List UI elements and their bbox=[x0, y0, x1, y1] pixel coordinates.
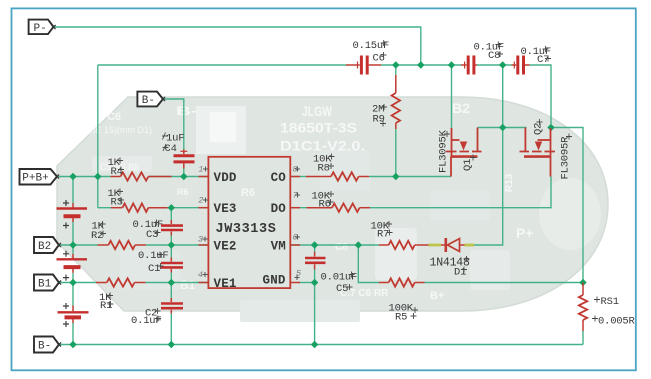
battery cell BT3 bbox=[58, 312, 89, 317]
wire VE3 row bbox=[98, 207, 111, 209]
svg-text:0.1uF: 0.1uF bbox=[131, 315, 162, 327]
port P+B+ bbox=[20, 169, 58, 185]
wire lead R4 bbox=[111, 176, 121, 178]
wire B2 / VE2 row bbox=[59, 244, 98, 246]
wire DO / R6 row bbox=[290, 207, 306, 209]
resistor R2 bbox=[108, 241, 135, 249]
svg-text:R5: R5 bbox=[395, 312, 407, 324]
svg-text:P+: P+ bbox=[516, 225, 534, 241]
wire lead R6 bbox=[307, 207, 333, 209]
red component leads bbox=[73, 65, 583, 331]
capacitor C5 bbox=[305, 258, 326, 263]
wire lead C6 bbox=[346, 64, 360, 66]
resistor RS1 bbox=[579, 295, 587, 320]
wire gate rail y=127.5 bbox=[478, 127, 527, 129]
diode D1 1N4148 bbox=[446, 238, 460, 252]
svg-text:B-: B- bbox=[38, 341, 51, 353]
resistor R9 bbox=[392, 93, 400, 123]
wire C4 to VDD row bbox=[183, 169, 185, 177]
wire RS1 bottom bbox=[582, 331, 584, 345]
capacitor C2 bbox=[161, 304, 183, 309]
svg-text:4: 4 bbox=[198, 270, 203, 280]
capacitor C6 bbox=[361, 56, 367, 75]
svg-text:FL3095R: FL3095R bbox=[560, 136, 572, 180]
wire lead RS1 bbox=[582, 283, 584, 296]
battery cell BT2 bbox=[57, 259, 88, 267]
port B- bottom bbox=[34, 337, 59, 353]
IC U1 pin stubs bbox=[199, 176, 209, 178]
svg-text:D1C1-V2.0.: D1C1-V2.0. bbox=[280, 138, 365, 154]
svg-text:Q2: Q2 bbox=[533, 123, 545, 135]
small plus ticks after labels bbox=[100, 40, 601, 322]
wire lead C2 bbox=[170, 298, 172, 302]
svg-text:C8: C8 bbox=[335, 242, 348, 253]
svg-text:B-: B- bbox=[142, 95, 155, 107]
svg-text:B2: B2 bbox=[38, 241, 51, 253]
svg-text:0.005R: 0.005R bbox=[598, 316, 636, 328]
capacitor C3 bbox=[161, 226, 183, 230]
battery plus marks bbox=[63, 200, 69, 327]
svg-text:R6: R6 bbox=[319, 199, 331, 211]
svg-text:C1: C1 bbox=[148, 263, 160, 275]
svg-text:0.1uF: 0.1uF bbox=[138, 250, 169, 262]
port P- bbox=[29, 20, 54, 35]
IC U1 JW3313S bbox=[208, 157, 290, 291]
svg-text:1: 1 bbox=[198, 165, 203, 175]
wire vertical x=98 bbox=[97, 65, 99, 208]
svg-text:GND: GND bbox=[263, 274, 286, 288]
wire lead R2 bbox=[98, 244, 109, 246]
capacitor C7 bbox=[518, 56, 524, 75]
svg-text:JLGW: JLGW bbox=[302, 103, 333, 119]
svg-text:B1: B1 bbox=[180, 278, 196, 292]
resistor R7 bbox=[389, 241, 415, 249]
wire R5 row from x=358.3 bbox=[358, 245, 379, 283]
svg-text:RS1: RS1 bbox=[598, 264, 618, 275]
svg-text:C4: C4 bbox=[165, 143, 177, 155]
wire lead R8 bbox=[306, 176, 331, 178]
wire P+B+ / VDD row bbox=[57, 176, 111, 178]
svg-text:VE1: VE1 bbox=[214, 277, 237, 291]
wire lead R3 bbox=[111, 207, 122, 209]
resistor R1 bbox=[107, 278, 135, 286]
svg-text:VE2: VE2 bbox=[214, 239, 237, 253]
svg-text:R7: R7 bbox=[377, 229, 389, 241]
port B2 bbox=[34, 237, 59, 253]
wire GND pin row bbox=[299, 282, 315, 284]
svg-text:C7: C7 bbox=[537, 54, 549, 66]
capacitor C8 bbox=[468, 56, 474, 75]
svg-text:B2: B2 bbox=[452, 100, 470, 116]
resistor R4 bbox=[121, 172, 149, 180]
svg-text:3: 3 bbox=[198, 235, 203, 245]
svg-text:R6: R6 bbox=[177, 187, 189, 197]
wire lead battery cells bbox=[72, 203, 74, 208]
transistor Q1 arrow bbox=[460, 142, 467, 151]
resistor R6 bbox=[332, 204, 360, 212]
wire lead D1 bbox=[441, 244, 445, 246]
svg-text:C3: C3 bbox=[146, 229, 158, 241]
battery cell BT1 bbox=[57, 209, 88, 217]
wire VM / B2 net row bbox=[290, 244, 314, 246]
wire B1 / VE1 row bbox=[59, 282, 96, 284]
svg-text:R2: R2 bbox=[91, 230, 103, 242]
wire lead C1 bbox=[170, 258, 172, 262]
svg-text:VM: VM bbox=[271, 239, 286, 253]
wire R9 column bbox=[395, 65, 397, 75]
capacitor C1 bbox=[161, 263, 183, 267]
svg-text:C8: C8 bbox=[488, 50, 500, 62]
svg-text:FL3095K: FL3095K bbox=[438, 129, 450, 173]
transistor Q2 arrow bbox=[535, 142, 542, 151]
resistor R8 bbox=[331, 172, 359, 180]
svg-text:C5: C5 bbox=[336, 283, 348, 295]
PCB photo watermark bbox=[57, 97, 618, 322]
svg-text:CO: CO bbox=[271, 171, 287, 185]
resistor R5 bbox=[389, 278, 415, 286]
transistor Q1 FL3095K bbox=[446, 128, 482, 177]
svg-text:B+: B+ bbox=[430, 290, 444, 302]
svg-text:B-: B- bbox=[176, 104, 198, 118]
svg-text:18650T-3S: 18650T-3S bbox=[280, 120, 357, 136]
IC pin numbers bbox=[198, 165, 301, 281]
resistor R3 bbox=[122, 204, 148, 212]
wire lead R7 bbox=[379, 244, 389, 246]
wire yellow right of D1 bbox=[465, 244, 475, 247]
svg-text:VE3: VE3 bbox=[214, 202, 237, 216]
port B1 bbox=[34, 275, 59, 291]
yellow net segments near D1 bbox=[429, 244, 475, 247]
wire battery column bbox=[72, 177, 74, 204]
wire C5 column bbox=[314, 245, 316, 252]
svg-text:R13: R13 bbox=[504, 173, 515, 192]
wire P- net top bbox=[54, 27, 421, 65]
transistor Q2 FL3095R bbox=[520, 128, 556, 177]
wire D1 right to vertical x=502.7 bbox=[474, 65, 503, 245]
svg-text:C6: C6 bbox=[373, 53, 385, 65]
svg-text:RS1: RS1 bbox=[601, 296, 619, 308]
wire lead R1 bbox=[96, 282, 107, 284]
svg-text:2: 2 bbox=[198, 196, 203, 206]
svg-text:DO: DO bbox=[271, 202, 287, 216]
svg-text:Q1: Q1 bbox=[462, 159, 474, 171]
wire CO / R8 row bbox=[290, 176, 306, 178]
svg-text:P-: P- bbox=[34, 23, 47, 35]
wire lead C8 bbox=[461, 64, 467, 66]
svg-text:JW3313S: JW3313S bbox=[216, 222, 277, 237]
red pin ticks on capacitor leads bbox=[180, 62, 514, 152]
svg-text:B1: B1 bbox=[38, 279, 52, 291]
wire lead C4 bbox=[183, 150, 185, 155]
wire lead R5 bbox=[379, 282, 389, 284]
svg-text:R6: R6 bbox=[241, 187, 255, 199]
svg-text:R8: R8 bbox=[318, 163, 330, 175]
svg-text:P+B+: P+B+ bbox=[22, 173, 48, 185]
wire lead C7 bbox=[512, 64, 517, 66]
port pin end crosses bbox=[51, 25, 165, 347]
wire C3/C1/C2 column bbox=[170, 208, 172, 220]
wire cap rail y=65 bbox=[98, 64, 346, 66]
port B- top bbox=[137, 92, 163, 107]
wire B- top port to C4 bbox=[163, 99, 184, 150]
wire yellow left of D1 bbox=[429, 244, 442, 247]
wire lead C5 bbox=[314, 252, 316, 257]
wire lead C3 bbox=[170, 220, 172, 224]
wire Q1 source from cap rail bbox=[451, 65, 453, 128]
svg-text:C4 C6: C4 C6 bbox=[90, 111, 121, 123]
wire B- bottom rail bbox=[59, 344, 583, 346]
capacitor C4 bbox=[174, 156, 195, 162]
wire lead R9 bbox=[395, 75, 397, 93]
svg-text:VDD: VDD bbox=[214, 171, 237, 185]
node junction diamonds bbox=[392, 61, 399, 68]
